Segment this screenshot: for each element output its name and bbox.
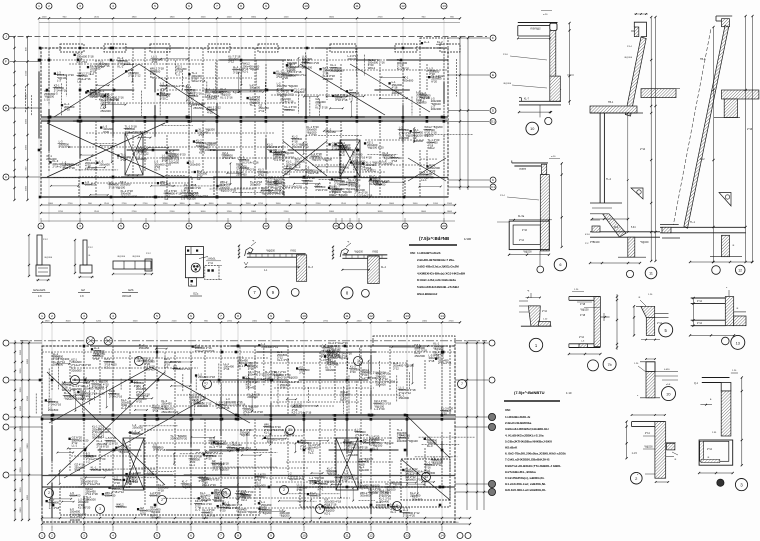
svg-text:7: 7 [461, 382, 463, 386]
svg-text:4: 4 [112, 534, 114, 538]
svg-text:4^18: 4^18 [114, 481, 120, 485]
svg-text:3^18 3^18: 3^18 3^18 [153, 448, 166, 452]
svg-text:2700: 2700 [449, 320, 455, 322]
plan 2 interior vertical walls [51, 352, 53, 390]
svg-text:6: 6 [145, 224, 147, 228]
detail 8 left hook [340, 249, 348, 258]
plan 1 left dimension chains [14, 37, 16, 200]
svg-text:250x450: 250x450 [326, 130, 337, 134]
detail 20 callout [662, 387, 676, 401]
svg-text:PTBh100: PTBh100 [590, 242, 600, 244]
plan 1 lower right diagonals [283, 141, 327, 176]
svg-text:3600: 3600 [285, 320, 291, 322]
svg-text:^8@200 6^20: ^8@200 6^20 [367, 146, 384, 150]
svg-text:LL-1: LL-1 [190, 463, 196, 467]
svg-text:1500: 1500 [27, 395, 29, 401]
plan 2 dash-dot line with crossed circles [20, 340, 487, 342]
svg-text:200x300: 200x300 [399, 436, 410, 440]
svg-text:^8@200: ^8@200 [266, 250, 276, 253]
svg-text:2400: 2400 [27, 443, 29, 449]
svg-text:250x450: 250x450 [116, 505, 127, 509]
svg-text:KZ-1: KZ-1 [98, 435, 104, 439]
svg-text:4^16: 4^16 [522, 229, 528, 232]
plan 1 bottom band [41, 196, 448, 198]
detail 12 dimension chains [713, 27, 715, 262]
svg-text:2^14: 2^14 [707, 448, 713, 451]
svg-text:200x500: 200x500 [250, 183, 261, 187]
svg-text:200x500: 200x500 [71, 368, 82, 372]
svg-text:1: 1 [38, 4, 40, 8]
svg-text:8 BGTnJ+KLBXHtG;T7nJGBtKLJ GBK: 8 BGTnJ+KLBXHtG;T7nJGBtKLJ GBKL [505, 464, 561, 468]
svg-text:a-20: a-20 [551, 156, 556, 158]
svg-text:2^12 2^16: 2^12 2^16 [92, 385, 105, 389]
detail 8 dims [342, 269, 369, 271]
plan 2 left dimension chains [14, 340, 16, 520]
svg-text:K:tGB=-HSJ,nJb=GBLnBJa: K:tGB=-HSJ,nJb=GBLnBJa [417, 278, 456, 282]
svg-text:250x600: 250x600 [99, 162, 110, 166]
svg-text:2700: 2700 [227, 320, 233, 322]
svg-text:6: 6 [188, 4, 190, 8]
svg-text:XL-1: XL-1 [243, 413, 249, 417]
svg-text:2^14+2^16 6^20: 2^14+2^16 6^20 [195, 349, 215, 353]
svg-text:1500: 1500 [20, 487, 22, 493]
svg-text:F: F [5, 60, 7, 64]
plan 2 lower band [42, 486, 455, 488]
detail 10 wall section [518, 22, 558, 24]
detail 12 stair section [716, 15, 732, 17]
svg-text:1: 1 [138, 359, 140, 363]
svg-text:250x600: 250x600 [399, 396, 410, 400]
svg-text:3^18: 3^18 [153, 409, 159, 413]
svg-text:1200: 1200 [284, 16, 290, 18]
svg-text:200x400: 200x400 [132, 432, 143, 436]
plan 2 axis C strong line [42, 475, 455, 477]
svg-text:9: 9 [270, 534, 272, 538]
svg-text:1800: 1800 [45, 320, 51, 322]
svg-text:3: 3 [83, 314, 85, 318]
svg-text:6^20: 6^20 [199, 479, 205, 483]
svg-text:4^20: 4^20 [309, 481, 315, 485]
svg-text:2400: 2400 [172, 522, 178, 524]
svg-text:1:8: 1:8 [80, 295, 84, 298]
svg-text:KL-2: KL-2 [118, 64, 124, 68]
svg-text:2^12: 2^12 [88, 246, 93, 249]
svg-text:11: 11 [345, 314, 348, 318]
svg-text:^8@100 6^20: ^8@100 6^20 [121, 194, 138, 198]
detail GZa L-section [37, 235, 42, 265]
svg-text:13: 13 [736, 341, 740, 345]
svg-text:1500: 1500 [276, 203, 282, 205]
svg-text:UM:: UM: [505, 408, 511, 412]
svg-text:4^20: 4^20 [350, 370, 356, 374]
svg-text:^8@200: ^8@200 [330, 68, 340, 72]
svg-text:200x300: 200x300 [150, 494, 161, 498]
svg-text:2700: 2700 [68, 203, 74, 205]
svg-text:3300: 3300 [227, 203, 233, 205]
svg-text:^8@200 ^8@200: ^8@200 ^8@200 [88, 95, 109, 99]
detail 5 callout [659, 323, 673, 337]
svg-text:12: 12 [264, 224, 268, 228]
svg-text:1800: 1800 [132, 16, 138, 18]
svg-text:2400: 2400 [252, 320, 258, 322]
svg-text:1200: 1200 [227, 211, 233, 213]
svg-text:2100: 2100 [316, 203, 322, 205]
svg-text:LL-1: LL-1 [195, 507, 201, 511]
svg-text:1200: 1200 [96, 320, 102, 322]
svg-text:L-3: L-3 [349, 96, 353, 100]
plan 2 stair shaft X 1 [123, 438, 144, 490]
svg-text:^8@200: ^8@200 [354, 251, 364, 254]
plan 1 top axis bubbles [36, 3, 42, 9]
svg-text:1200: 1200 [42, 16, 48, 18]
svg-text:3000: 3000 [20, 447, 22, 453]
svg-text:2: 2 [48, 4, 50, 8]
svg-text:^8@200: ^8@200 [117, 255, 126, 258]
svg-text:5: 5 [156, 314, 158, 318]
svg-text:5: 5 [74, 378, 76, 382]
svg-text:4^20: 4^20 [282, 76, 288, 80]
svg-text:XL-1 3^18: XL-1 3^18 [277, 358, 290, 362]
svg-text:300x600: 300x600 [416, 101, 427, 105]
svg-text:2^14+2^16: 2^14+2^16 [280, 100, 294, 104]
svg-text:1200: 1200 [285, 522, 291, 524]
plan 1 right axis bubbles [490, 35, 496, 41]
svg-text:13: 13 [424, 475, 428, 479]
plan 2 right dim chains [466, 340, 468, 510]
svg-text:^8@150: ^8@150 [580, 309, 589, 312]
svg-text:GZaxGZb: GZaxGZb [33, 288, 46, 292]
svg-text:KL-5a: KL-5a [518, 216, 525, 218]
svg-text:200x300: 200x300 [70, 518, 81, 522]
plan 2 outer walls [42, 346, 455, 522]
svg-text:L-1 2^16: L-1 2^16 [77, 60, 88, 64]
detail 7b callout [588, 360, 599, 371]
svg-text:3: 3 [79, 4, 81, 8]
svg-text:6^20: 6^20 [103, 130, 109, 134]
svg-text:12: 12 [369, 534, 373, 538]
svg-text:3000: 3000 [378, 211, 384, 213]
svg-text:1500: 1500 [413, 203, 419, 205]
svg-text:3000: 3000 [201, 211, 207, 213]
svg-text:250x500: 250x500 [48, 408, 59, 412]
svg-text:L-3 4^18: L-3 4^18 [49, 506, 60, 510]
svg-text:3: 3 [319, 507, 321, 511]
plan 2 stair shaft X 2 [336, 438, 358, 490]
plan 2 big X left [47, 372, 165, 485]
svg-text:2100: 2100 [284, 211, 290, 213]
svg-text:1500: 1500 [61, 522, 67, 524]
plan 1 top-right extension [420, 38, 448, 48]
svg-text:300x600: 300x600 [325, 368, 336, 372]
svg-text:5: 5 [156, 534, 158, 538]
plan 1 stair X cross left [47, 123, 165, 177]
svg-text:200x500: 200x500 [323, 77, 334, 81]
svg-text:^8@200: ^8@200 [523, 251, 532, 254]
svg-text:4^18: 4^18 [158, 488, 164, 492]
callout circle 8 [341, 287, 353, 299]
svg-text:LL-1: LL-1 [424, 40, 430, 44]
svg-text:1/100: 1/100 [464, 237, 471, 241]
svg-text:14: 14 [440, 314, 444, 318]
svg-text:C1: C1 [491, 185, 495, 189]
svg-text:1200: 1200 [204, 522, 210, 524]
detail 7b C-section [569, 296, 601, 298]
svg-text:6^20: 6^20 [98, 65, 104, 69]
svg-text:7: 7 [220, 534, 222, 538]
svg-text:2^14+2^16 ^8@200: 2^14+2^16 ^8@200 [274, 376, 298, 380]
svg-text:2^12 2^14+2^16: 2^12 2^14+2^16 [226, 403, 246, 407]
svg-text:^8@200: ^8@200 [503, 82, 512, 85]
detail 7/9 rebar ticks [249, 254, 251, 258]
svg-text:2^12: 2^12 [43, 238, 48, 241]
svg-text:2700: 2700 [58, 211, 64, 213]
svg-text:2400: 2400 [20, 507, 22, 513]
svg-text:20: 20 [288, 428, 292, 432]
svg-text:LL-1: LL-1 [121, 406, 127, 410]
svg-text:8: 8 [237, 314, 239, 318]
svg-text:^8@200: ^8@200 [624, 56, 633, 59]
plan 1 interior horizontal walls [69, 63, 204, 65]
svg-text:KZ-1: KZ-1 [241, 498, 247, 502]
svg-text:L-1: L-1 [44, 97, 48, 101]
svg-text:250x600: 250x600 [294, 90, 305, 94]
svg-text:2: 2 [48, 491, 50, 495]
svg-text:1500: 1500 [20, 387, 22, 393]
svg-text:200x400: 200x400 [144, 367, 155, 371]
plan 2 bottom dimension lines [42, 517, 470, 519]
svg-text:250x450: 250x450 [246, 385, 257, 389]
plan 2 extra partial walls [409, 372, 411, 390]
svg-text:Q-1: Q-1 [694, 382, 699, 385]
svg-text:2400: 2400 [251, 211, 257, 213]
detail 11 flag marker [631, 188, 643, 199]
plan 2 grid verticals [41, 324, 43, 528]
svg-text:4^20: 4^20 [206, 457, 212, 461]
svg-text:F: F [492, 36, 494, 40]
svg-text:250x500 ^8@200: 250x500 ^8@200 [91, 468, 113, 472]
svg-text:2: 2 [396, 504, 398, 508]
detail 12 bottom slab [660, 226, 746, 228]
svg-text:KL-3: KL-3 [308, 267, 314, 269]
svg-text:2.BnJKLtB7HXBGbr.7 20a.: 2.BnJKLtB7HXBGbr.7 20a. [417, 258, 455, 262]
svg-text:2^12: 2^12 [299, 371, 305, 375]
svg-text:1500: 1500 [296, 203, 302, 205]
svg-text:1500: 1500 [447, 203, 453, 205]
svg-text:1800: 1800 [329, 211, 335, 213]
detail 12 landing slab [722, 90, 759, 99]
svg-text:6^20: 6^20 [441, 412, 447, 416]
svg-text:2: 2 [51, 534, 53, 538]
svg-text:9: 9 [265, 4, 267, 8]
svg-text:250x450: 250x450 [207, 97, 218, 101]
detail 10 dimensions [518, 37, 550, 39]
svg-text:4^18: 4^18 [216, 445, 222, 449]
svg-text:L-2: L-2 [86, 460, 90, 464]
plan 2 top axis bubbles [39, 313, 45, 319]
svg-text:1: 1 [40, 224, 42, 228]
plan 2 corridor band [42, 414, 455, 416]
detail 1 callout [529, 338, 542, 351]
svg-text:4^20: 4^20 [207, 111, 213, 115]
detail 2 dims [632, 414, 665, 416]
svg-text:LL-1: LL-1 [72, 444, 78, 448]
svg-text:250x500: 250x500 [132, 426, 143, 430]
svg-text:2700: 2700 [323, 320, 329, 322]
svg-text:HSnLBGBnGJ: HSnLBGBnGJ [417, 292, 438, 296]
svg-text:^8@200: ^8@200 [94, 352, 104, 356]
svg-text:3600: 3600 [20, 467, 22, 473]
svg-text:KZ-1: KZ-1 [318, 488, 324, 492]
svg-text:250x600: 250x600 [169, 160, 180, 164]
svg-text:2^14: 2^14 [500, 194, 505, 197]
svg-text:200x500: 200x500 [399, 136, 410, 140]
svg-text:3000: 3000 [389, 203, 395, 205]
svg-text:KL-7 ^8@200: KL-7 ^8@200 [331, 193, 348, 197]
svg-text:14: 14 [440, 534, 444, 538]
svg-text:TB-2: TB-2 [700, 58, 706, 61]
svg-text:KZ-1: KZ-1 [104, 365, 110, 369]
svg-text:KL-1 2^16: KL-1 2^16 [220, 95, 233, 99]
svg-text:200x300: 200x300 [197, 404, 208, 408]
svg-text:3.tBG-KBnSJxLnJ(KG);GnJM: 3.tBG-KBnSJxLnJ(KG);GnJM [417, 265, 459, 269]
svg-text:3600: 3600 [20, 349, 22, 355]
svg-text:1500: 1500 [26, 93, 28, 99]
detail 5 section [641, 306, 655, 317]
svg-text:2^16 2^12: 2^16 2^12 [222, 156, 235, 160]
svg-text:200x500: 200x500 [383, 162, 394, 166]
svg-text:4: 4 [112, 4, 114, 8]
svg-text:2^14+2^16: 2^14+2^16 [109, 395, 123, 399]
plan 2 lower right diagonal box [401, 459, 450, 500]
detail 11 upper floor slab right [641, 89, 676, 98]
svg-text:3^18: 3^18 [233, 70, 239, 74]
svg-text:1200: 1200 [163, 203, 169, 205]
svg-text:200x400: 200x400 [70, 494, 81, 498]
svg-text:6: 6 [190, 314, 192, 318]
svg-text:7.GtKLnJHXSB50,GBnBtKJH-B: 7.GtKLnJHXSB50,GBnBtKJH-B [505, 458, 550, 462]
svg-text:4^20 2^14+2^16: 4^20 2^14+2^16 [81, 482, 101, 486]
svg-text:3: 3 [83, 534, 85, 538]
svg-text:^8@100: ^8@100 [240, 433, 250, 437]
svg-text:2^14+2^16: 2^14+2^16 [438, 361, 452, 365]
svg-text:5.GBnJK7HXtS8ba NHKBnJ-BKU: 5.GBnJK7HXtS8ba NHKBnJ-BKU [505, 439, 552, 443]
svg-text:200x500: 200x500 [412, 497, 423, 501]
svg-text:4^14: 4^14 [208, 262, 214, 265]
svg-text:200x400: 200x400 [348, 453, 359, 457]
svg-text:300x600: 300x600 [375, 382, 386, 386]
svg-text:4^18: 4^18 [373, 182, 379, 186]
plan 2 left axis bubbles [3, 340, 9, 346]
svg-text:3300: 3300 [227, 522, 233, 524]
svg-text:1: 1 [41, 314, 43, 318]
svg-text:(7.5)x^:Bd#NB: (7.5)x^:Bd#NB [419, 236, 449, 241]
detail 8 rebar ticks [345, 255, 347, 258]
svg-text:1:8: 1:8 [38, 295, 42, 298]
svg-text:200x300: 200x300 [53, 363, 64, 367]
svg-text:KZ-1: KZ-1 [284, 172, 290, 176]
svg-text:9.t/7xGBnJKL,-90Gba: 9.t/7xGBnJKL,-90Gba [505, 470, 536, 474]
svg-text:13: 13 [405, 534, 409, 538]
detail 12 flag marker [719, 193, 731, 206]
detail 12 left end step [660, 224, 679, 226]
svg-text:6^20: 6^20 [297, 488, 303, 492]
svg-text:1800: 1800 [20, 405, 22, 411]
plan 1 elevator shaft [125, 133, 143, 175]
svg-text:3000: 3000 [66, 320, 72, 322]
svg-text:6. BtG-7BnJKL200x5ba,JGBKLHXt5: 6. BtG-7BnJKL200x5ba,JGBKLHXt5 nJGBt [505, 452, 566, 456]
detail 20 section [646, 362, 655, 372]
plan 1 outer walls [41, 48, 448, 197]
svg-text:2.tB+KLSHBJ00ba: 2.tB+KLSHBJ00ba [505, 421, 532, 425]
detail 6 wall section [512, 162, 548, 164]
svg-text:250x600 4^20: 250x600 4^20 [302, 61, 319, 65]
svg-text:250x450 6^20: 250x450 6^20 [161, 410, 178, 414]
detail 2 callout [631, 472, 643, 484]
svg-text:4^20: 4^20 [152, 60, 158, 64]
svg-text:3^18: 3^18 [138, 150, 144, 154]
svg-text:KZ-1: KZ-1 [199, 151, 205, 155]
svg-text:3^18: 3^18 [93, 357, 99, 361]
svg-text:13: 13 [405, 314, 409, 318]
svg-text:1200: 1200 [227, 16, 233, 18]
svg-text:1: 1 [41, 534, 43, 538]
svg-text:KZ-1: KZ-1 [324, 511, 330, 515]
svg-text:GZc: GZc [193, 292, 199, 296]
svg-text:L-1 4^20: L-1 4^20 [374, 407, 385, 411]
detail GZc column section [185, 247, 203, 278]
svg-text:KL-3: KL-3 [369, 442, 375, 446]
detail 12 landing blob [724, 99, 737, 118]
svg-text:250x450: 250x450 [295, 168, 306, 172]
svg-text:200x400: 200x400 [359, 468, 370, 472]
plan 1 interior vertical walls [48, 48, 50, 90]
svg-text:8: 8 [237, 534, 239, 538]
svg-text:2^12: 2^12 [393, 366, 399, 370]
svg-text:2^14: 2^14 [579, 336, 585, 339]
plan 1 axis C strong line [41, 177, 448, 179]
svg-text:L-1: L-1 [125, 133, 129, 137]
svg-text:2700: 2700 [378, 16, 384, 18]
svg-text:2400: 2400 [454, 522, 460, 524]
svg-text:L-3 2^16: L-3 2^16 [321, 358, 332, 362]
svg-text:YKB1: YKB1 [290, 250, 297, 253]
detail 11 stair section top cap [634, 22, 646, 36]
svg-text:1:10: 1:10 [566, 391, 572, 395]
svg-text:2400: 2400 [48, 203, 54, 205]
svg-text:11: 11 [345, 534, 348, 538]
svg-text:2700: 2700 [143, 203, 149, 205]
detail 2 section [632, 421, 665, 423]
svg-text:7b: 7b [608, 363, 612, 367]
detail 7/9 slab section [247, 253, 306, 255]
plan 2 top dimension line [42, 321, 460, 323]
plan 1 column squares [186, 116, 189, 119]
detail 1 section [528, 306, 540, 326]
detail 8 slab section [342, 254, 387, 256]
svg-text:2^12 2^12: 2^12 2^12 [128, 74, 141, 78]
plan 1 upper right diagonals [300, 64, 385, 115]
svg-text:250x450 2^16: 250x450 2^16 [248, 372, 265, 376]
svg-text:300x600: 300x600 [136, 157, 147, 161]
plan 1 corridor columns [48, 116, 51, 119]
svg-text:10: 10 [226, 224, 230, 228]
svg-text:18: 18 [403, 224, 407, 228]
svg-text:4^18: 4^18 [198, 133, 204, 137]
svg-text:0 G2.25b250x(x), wB30G,KL: 0 G2.25b250x(x), wB30G,KL [505, 476, 545, 480]
svg-text:^8@100 2^16: ^8@100 2^16 [288, 477, 305, 481]
svg-text:200x300: 200x300 [214, 499, 225, 503]
detail 11 dimension chains [650, 17, 652, 261]
